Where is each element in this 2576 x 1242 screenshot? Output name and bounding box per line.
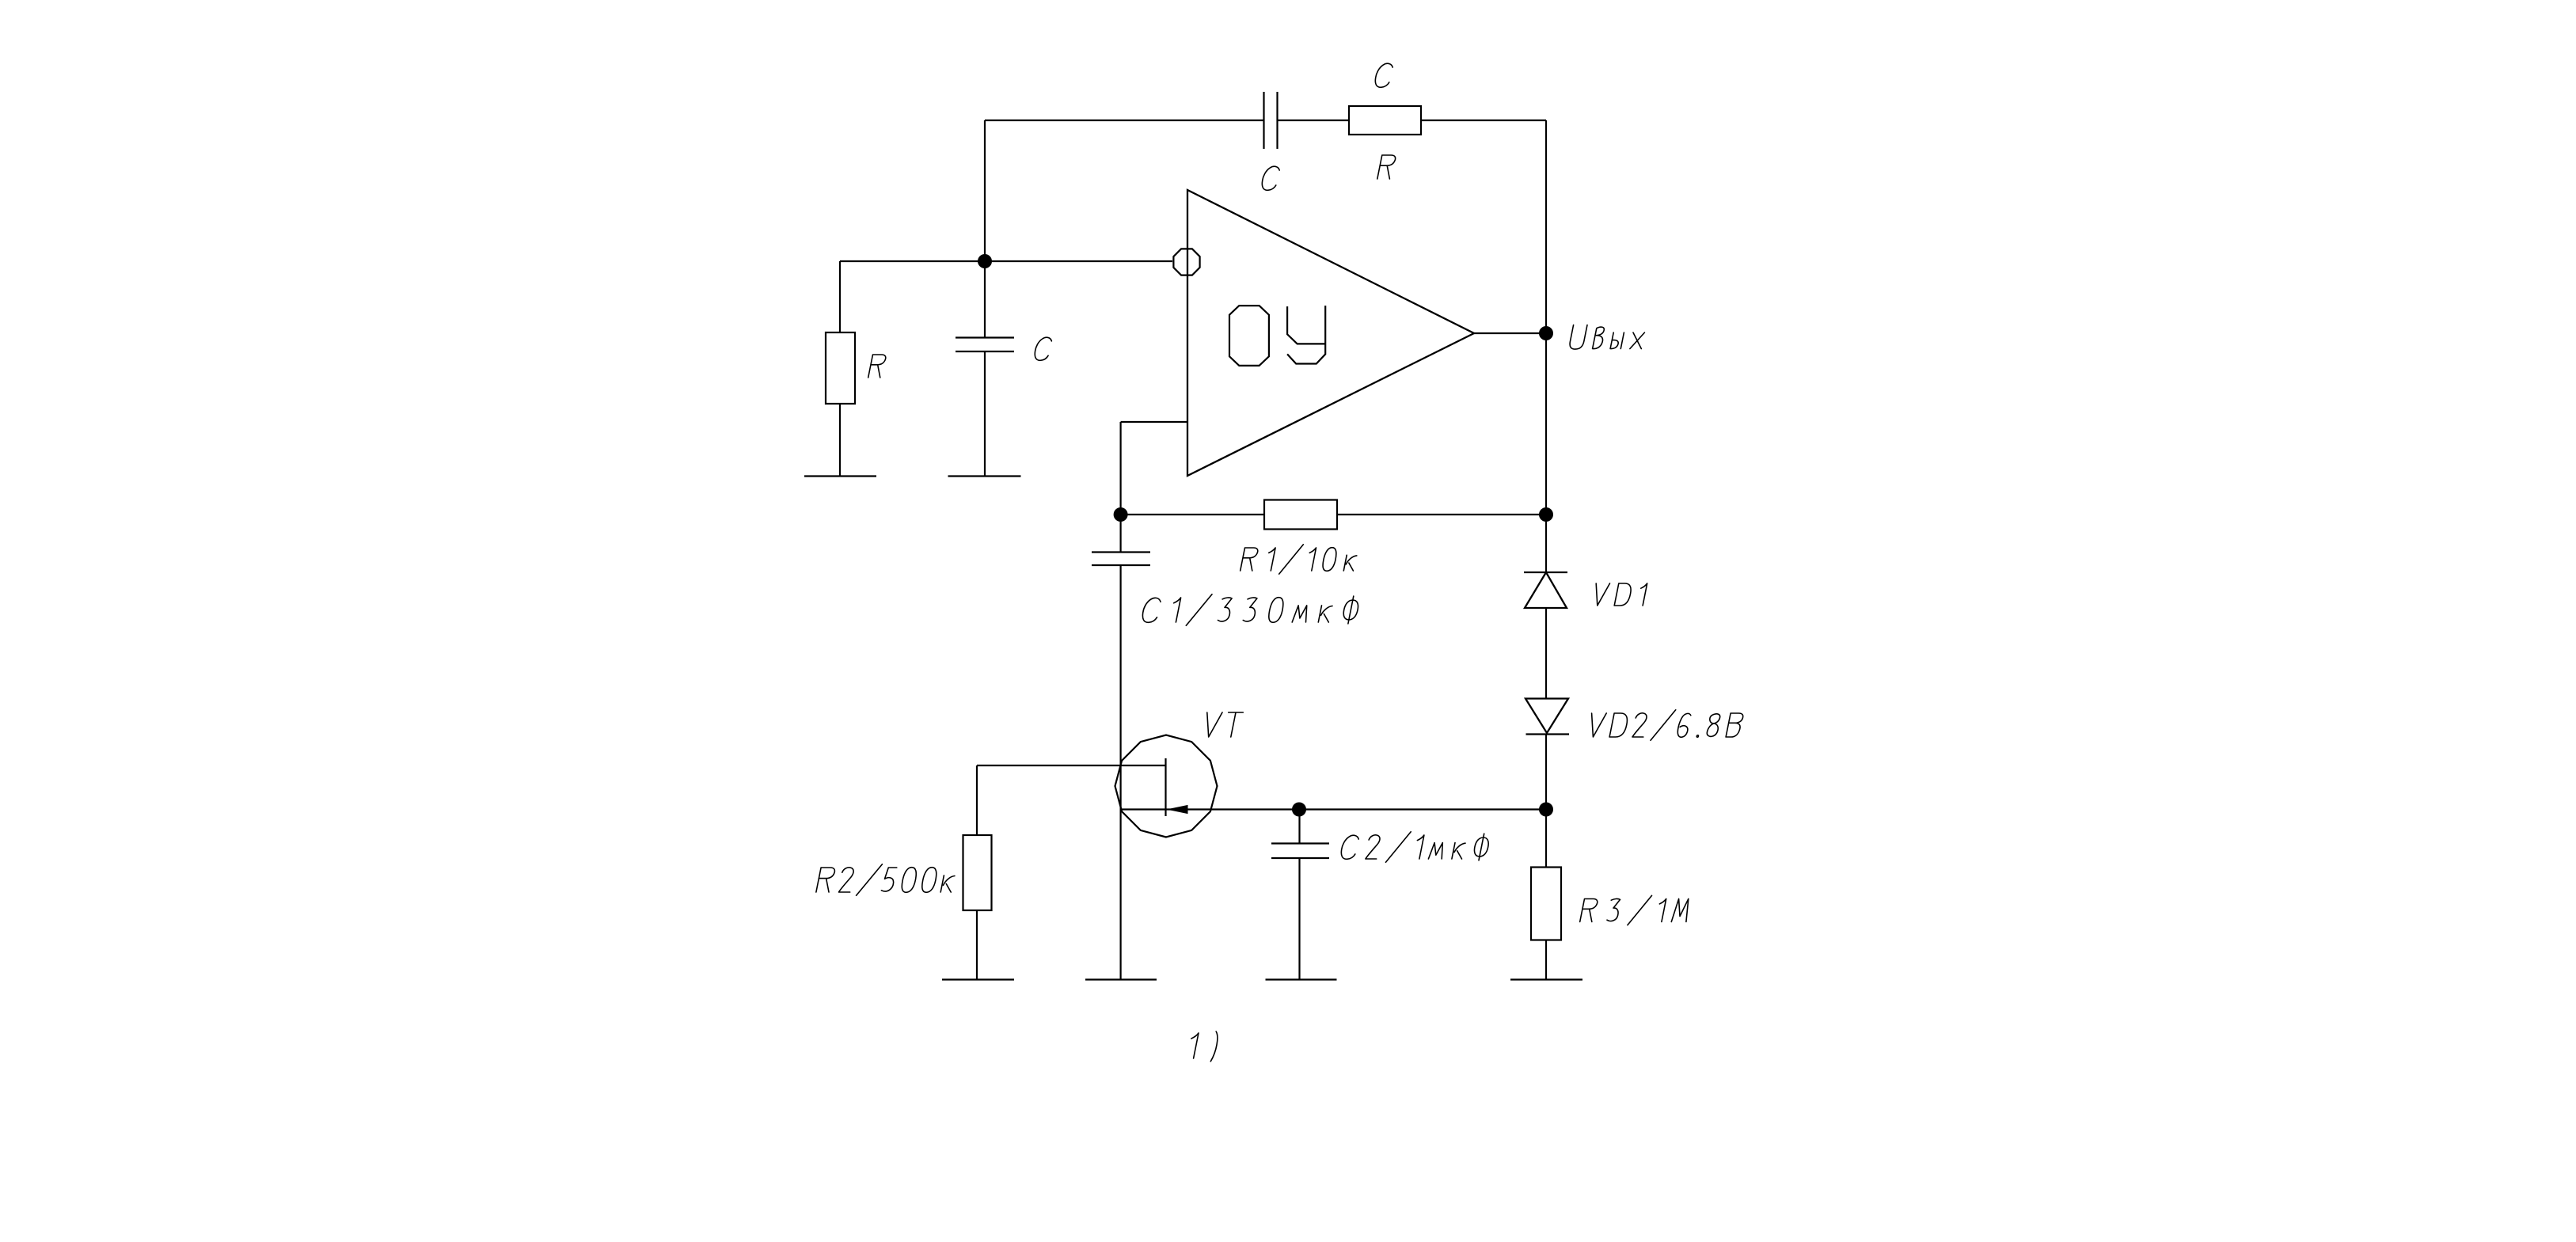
ground under C2 bbox=[1266, 978, 1337, 980]
wire VT source line bbox=[1121, 808, 1546, 810]
wire op-amp output bbox=[1474, 332, 1546, 334]
wire capacitor C left to ground bbox=[984, 351, 986, 476]
label VT bbox=[1207, 712, 1244, 737]
label R3/1М bbox=[1580, 895, 1689, 925]
label figure number 1) bbox=[1191, 1031, 1218, 1062]
wire gate from R2 to VT bbox=[977, 765, 1166, 766]
wire top feedback right segment bbox=[1421, 120, 1546, 121]
wire R3 to ground bbox=[1545, 940, 1547, 980]
transistor VT circle bbox=[1115, 735, 1218, 837]
op-amp inverting input bubble bbox=[1173, 249, 1199, 275]
ground under R2 bbox=[942, 978, 1014, 980]
wire capacitor C1 down to ground bbox=[1119, 565, 1121, 979]
resistor R2 bbox=[963, 835, 992, 910]
wire node to capacitor C1 bbox=[1119, 515, 1121, 552]
node R1 right junction bbox=[1539, 507, 1553, 522]
wire top feedback left segment bbox=[985, 120, 1263, 121]
wire gate corner down to R2 bbox=[976, 765, 978, 835]
wire input node to left RC corner bbox=[840, 260, 985, 262]
node C2 R3 junction bbox=[1539, 803, 1553, 817]
wire VD1 to VD2 bbox=[1545, 608, 1547, 699]
wire left vertical feedback to input node bbox=[984, 120, 986, 261]
capacitor C1 plates bbox=[1092, 551, 1150, 553]
label VD1 bbox=[1596, 583, 1647, 606]
ground under left C bbox=[948, 475, 1021, 477]
ground under C1 wire bbox=[1085, 978, 1157, 980]
op-amp label ОУ letter О bbox=[1229, 306, 1269, 366]
wire node down to R3 bbox=[1545, 810, 1547, 868]
resistor R left bbox=[826, 332, 855, 404]
wire resistor R left to ground bbox=[839, 404, 841, 476]
label C2/1мкФ bbox=[1341, 832, 1488, 862]
node Uвых output junction bbox=[1539, 326, 1553, 340]
wire top feedback middle segment bbox=[1278, 120, 1349, 121]
capacitor C feedback plates bbox=[1263, 92, 1264, 149]
ground under left R bbox=[804, 475, 876, 477]
diode VD1 triangle bbox=[1525, 572, 1567, 608]
wire C2 to ground bbox=[1298, 858, 1300, 979]
wire R2 to ground bbox=[976, 910, 978, 979]
wire R1 node to VD1 bbox=[1545, 515, 1547, 572]
wire right vertical from feedback to output bbox=[1545, 120, 1547, 333]
capacitor C2 plates bbox=[1271, 842, 1329, 844]
resistor R3 bbox=[1531, 868, 1561, 940]
wire non-inverting input vertical bbox=[1119, 422, 1121, 515]
transistor VT gate bar bbox=[1165, 758, 1166, 816]
op-amp label ОУ letter У bbox=[1287, 306, 1325, 363]
label VD2/6.8В bbox=[1592, 710, 1743, 740]
op-amp U1 triangle bbox=[1187, 190, 1474, 476]
node R1 left junction bbox=[1114, 507, 1128, 522]
diode VD2 triangle bbox=[1525, 699, 1568, 734]
label Uвых output bbox=[1570, 325, 1644, 350]
label R of feedback resistor bbox=[1377, 155, 1396, 179]
node A inverting input junction bbox=[978, 254, 992, 268]
resistor R1 bbox=[1264, 500, 1337, 530]
resistor R feedback bbox=[1349, 106, 1421, 135]
wire corner down to resistor R left bbox=[839, 261, 841, 332]
wire node to capacitor C left bbox=[984, 261, 986, 337]
wire R1 right bbox=[1337, 514, 1546, 515]
ground under R3 bbox=[1510, 978, 1582, 980]
label C of feedback capacitor bbox=[1375, 63, 1392, 87]
capacitor C left plates bbox=[956, 336, 1014, 338]
wire VD2 to node bbox=[1545, 735, 1547, 810]
label R2/500к bbox=[816, 864, 955, 896]
label R of left resistor bbox=[868, 355, 886, 378]
label C below feedback capacitor bbox=[1262, 166, 1279, 190]
wire R1 left bbox=[1121, 514, 1264, 515]
transistor VT arrow bbox=[1168, 806, 1187, 814]
label C1/330мкФ bbox=[1142, 594, 1358, 626]
wire non-inverting input horizontal bbox=[1121, 421, 1187, 423]
wire node down to C2 bbox=[1298, 810, 1300, 844]
diode VD1 cathode bar bbox=[1524, 572, 1567, 573]
wire output to R1 right node bbox=[1545, 333, 1547, 515]
label R1/10к bbox=[1241, 545, 1357, 574]
diode VD2 cathode bar bbox=[1526, 733, 1570, 735]
label C of left capacitor bbox=[1035, 337, 1051, 360]
wire input node to op-amp bubble bbox=[985, 260, 1172, 262]
node C2 junction bbox=[1292, 803, 1306, 817]
